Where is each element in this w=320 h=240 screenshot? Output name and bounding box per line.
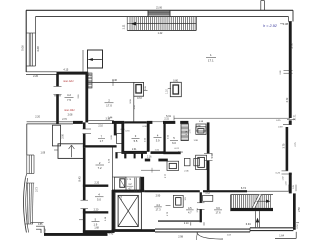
svg-text:3.18: 3.18: [106, 118, 111, 120]
svg-text:17.71: 17.71: [294, 114, 297, 121]
svg-text:1.09: 1.09: [40, 152, 45, 155]
svg-text:1.64: 1.64: [279, 234, 284, 237]
svg-text:6.74: 6.74: [241, 186, 247, 190]
svg-text:4.46: 4.46: [112, 79, 117, 82]
svg-text:2.10: 2.10: [98, 126, 103, 128]
svg-text:2.04: 2.04: [178, 152, 183, 154]
svg-text:6.0: 6.0: [172, 141, 176, 145]
svg-text:17.3: 17.3: [155, 208, 161, 212]
svg-text:17.1: 17.1: [208, 59, 214, 63]
svg-text:17.6: 17.6: [215, 211, 221, 215]
svg-text:2.31: 2.31: [164, 119, 169, 121]
svg-text:пом 19Н: пом 19Н: [64, 108, 75, 112]
svg-text:пом 12Н: пом 12Н: [63, 79, 74, 83]
svg-text:4.2: 4.2: [67, 93, 71, 97]
svg-text:4.7: 4.7: [188, 211, 192, 215]
svg-text:1.11: 1.11: [122, 24, 125, 29]
svg-text:2.06: 2.06: [62, 133, 64, 138]
svg-text:1.42: 1.42: [158, 32, 163, 35]
svg-text:2.20: 2.20: [33, 75, 38, 78]
svg-text:4.68: 4.68: [36, 46, 40, 52]
svg-text:2.08: 2.08: [68, 113, 73, 116]
svg-text:4.43: 4.43: [108, 233, 113, 236]
svg-text:6.94: 6.94: [246, 223, 251, 226]
svg-text:2.56: 2.56: [299, 207, 301, 212]
svg-text:0.55: 0.55: [38, 224, 43, 226]
svg-text:2.20: 2.20: [94, 181, 99, 184]
svg-text:2.31: 2.31: [132, 149, 137, 151]
svg-text:2.98: 2.98: [178, 235, 183, 238]
svg-text:4.4: 4.4: [156, 203, 160, 207]
svg-text:5.0: 5.0: [97, 198, 101, 202]
svg-text:7.5: 7.5: [67, 98, 71, 102]
svg-text:2.70: 2.70: [62, 119, 67, 121]
svg-text:2.90: 2.90: [156, 194, 161, 197]
svg-text:6.6: 6.6: [216, 206, 220, 210]
svg-text:0.25: 0.25: [290, 185, 292, 189]
svg-text:3.72: 3.72: [286, 97, 289, 102]
svg-text:2.20: 2.20: [94, 209, 99, 212]
svg-text:5.31: 5.31: [166, 115, 171, 118]
svg-text:21.06: 21.06: [156, 7, 162, 9]
svg-text:5.5: 5.5: [134, 139, 138, 143]
svg-text:1.05: 1.05: [293, 185, 295, 189]
svg-text:8.43: 8.43: [78, 176, 82, 182]
svg-text:2.14: 2.14: [184, 222, 189, 225]
svg-text:5.59: 5.59: [211, 153, 214, 158]
svg-text:0.80: 0.80: [173, 80, 178, 83]
svg-text:4.15: 4.15: [63, 69, 68, 72]
svg-text:2.73: 2.73: [36, 187, 38, 192]
svg-text:1.05: 1.05: [90, 73, 92, 78]
svg-text:2.16: 2.16: [147, 157, 152, 159]
svg-text:7.2: 7.2: [98, 166, 102, 170]
svg-text:3.9: 3.9: [156, 138, 160, 142]
svg-text:5.06: 5.06: [20, 45, 24, 51]
svg-text:2.20: 2.20: [35, 115, 40, 118]
svg-text:0.38: 0.38: [283, 22, 289, 26]
svg-text:17.0: 17.0: [106, 103, 112, 107]
svg-text:h = 2.92: h = 2.92: [263, 24, 278, 28]
svg-text:0.72: 0.72: [137, 97, 142, 100]
svg-text:1.9: 1.9: [94, 222, 98, 226]
svg-text:3.75: 3.75: [283, 143, 286, 148]
svg-text:4.5: 4.5: [188, 206, 192, 210]
svg-text:1.7: 1.7: [100, 139, 104, 143]
svg-text:3.75: 3.75: [291, 43, 294, 48]
svg-text:1.10: 1.10: [166, 89, 168, 94]
svg-text:1.68: 1.68: [94, 228, 99, 230]
